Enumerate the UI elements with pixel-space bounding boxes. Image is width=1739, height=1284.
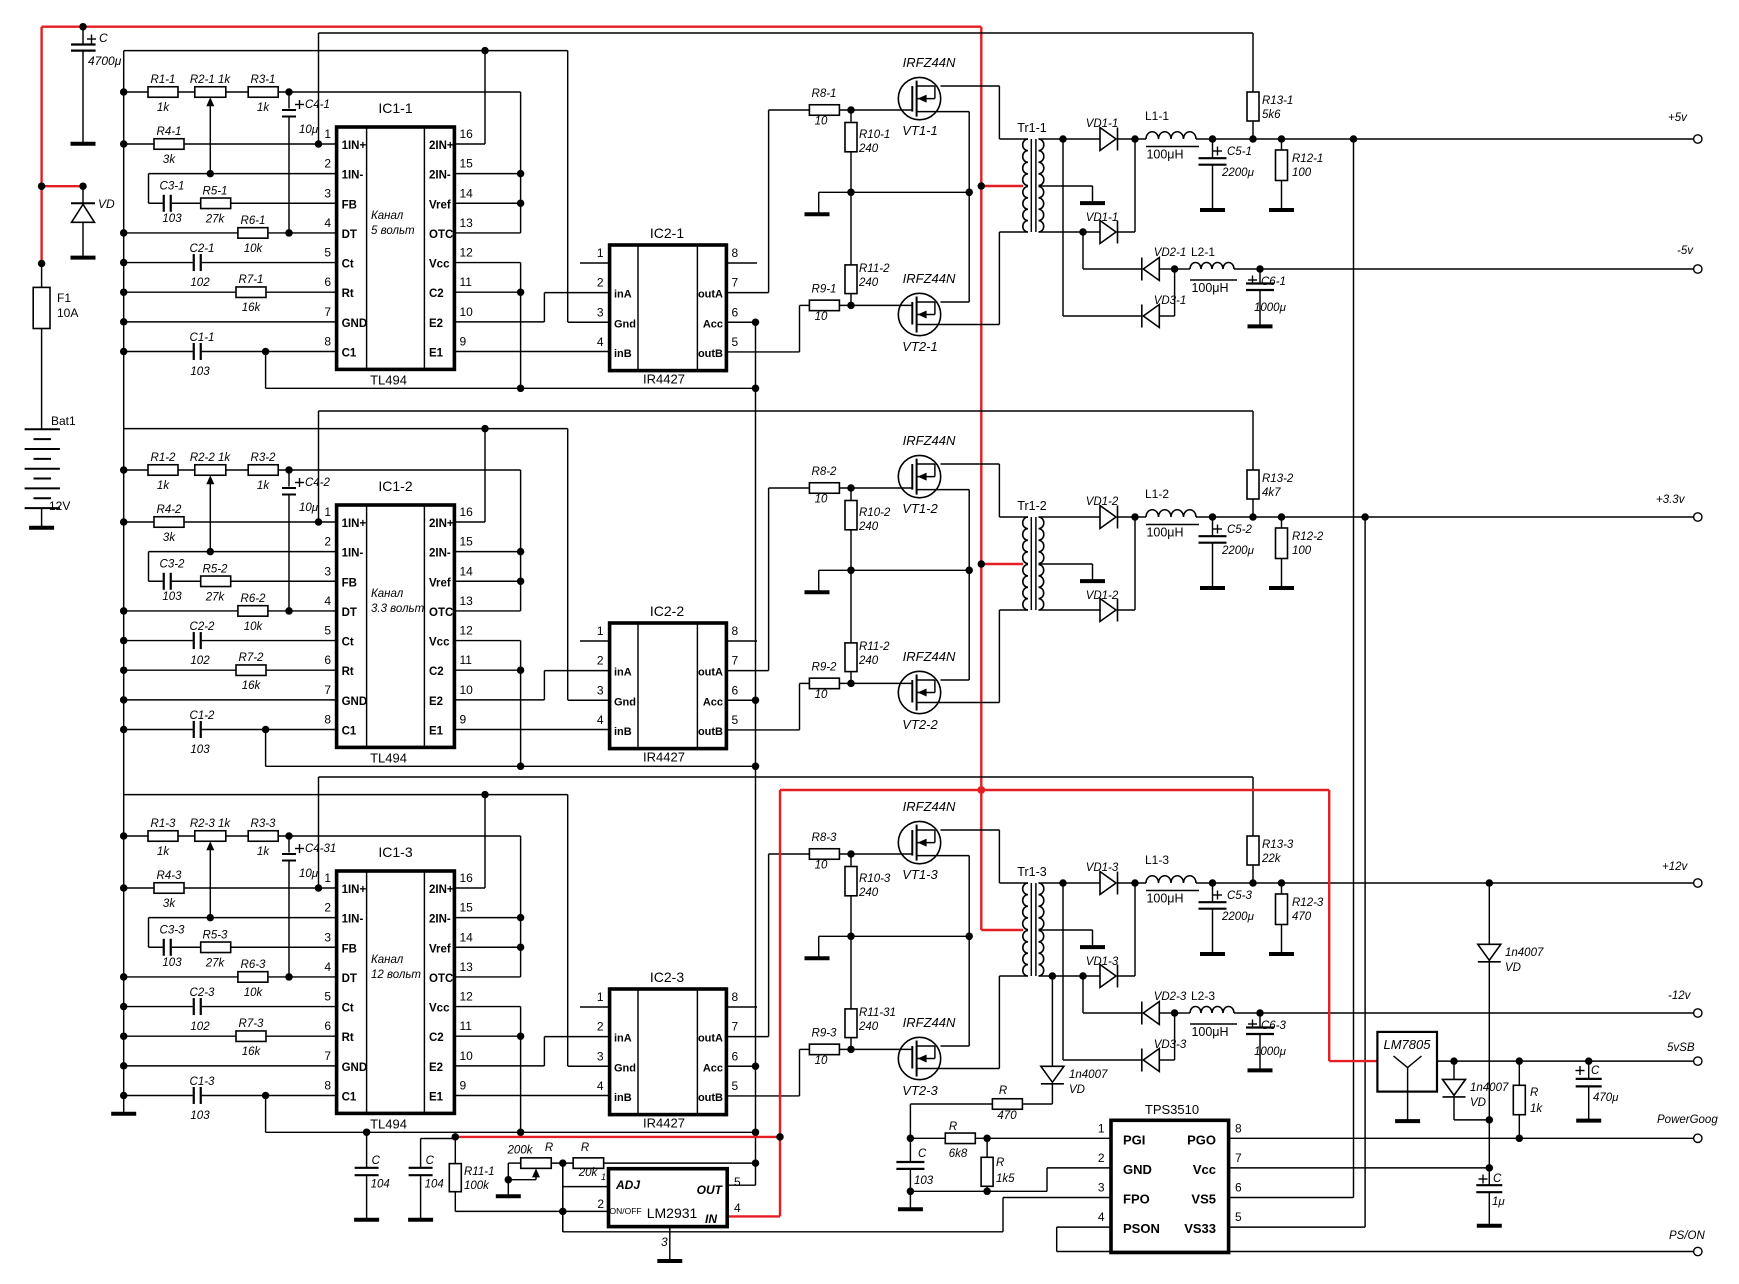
svg-text:IRFZ44N: IRFZ44N (903, 433, 956, 448)
svg-text:102: 102 (190, 1021, 210, 1033)
svg-text:3: 3 (324, 186, 331, 200)
svg-text:6: 6 (732, 1049, 739, 1063)
svg-text:12: 12 (460, 624, 474, 638)
svg-text:Vcc: Vcc (1193, 1162, 1216, 1177)
svg-text:VT2-1: VT2-1 (902, 339, 937, 354)
svg-text:6k8: 6k8 (949, 1148, 968, 1160)
svg-text:3: 3 (597, 683, 604, 697)
svg-text:DT: DT (342, 973, 357, 985)
svg-text:470: 470 (997, 1110, 1017, 1122)
svg-text:20k: 20k (578, 1167, 599, 1179)
svg-text:C: C (1591, 1065, 1600, 1077)
svg-text:R6-2: R6-2 (241, 593, 267, 605)
svg-text:6: 6 (732, 305, 739, 319)
svg-text:VT1-2: VT1-2 (902, 501, 938, 516)
svg-text:R3-3: R3-3 (251, 818, 277, 830)
svg-text:R8-2: R8-2 (812, 466, 838, 478)
svg-text:3: 3 (661, 1235, 668, 1249)
svg-text:5: 5 (732, 1079, 739, 1093)
svg-text:R: R (545, 1142, 553, 1154)
svg-text:IRFZ44N: IRFZ44N (903, 55, 956, 70)
svg-text:C2-3: C2-3 (190, 987, 216, 999)
svg-text:C3-1: C3-1 (160, 180, 185, 192)
svg-text:7: 7 (732, 276, 739, 290)
svg-text:1IN+: 1IN+ (342, 518, 367, 530)
svg-text:240: 240 (858, 887, 879, 899)
svg-text:IRFZ44N: IRFZ44N (903, 799, 956, 814)
svg-text:8: 8 (324, 1078, 331, 1092)
svg-text:100μH: 100μH (1146, 526, 1183, 540)
svg-text:100μH: 100μH (1146, 148, 1183, 162)
svg-text:R7-2: R7-2 (239, 652, 265, 664)
svg-text:22k: 22k (1261, 853, 1282, 865)
svg-text:16: 16 (460, 127, 474, 141)
svg-text:Канал: Канал (371, 210, 404, 222)
svg-text:VD: VD (1505, 962, 1521, 974)
svg-text:4: 4 (597, 1079, 604, 1093)
svg-text:240: 240 (858, 143, 879, 155)
svg-text:VT2-2: VT2-2 (902, 717, 938, 732)
svg-text:100k: 100k (464, 1180, 490, 1192)
svg-text:10: 10 (815, 689, 828, 701)
svg-text:2IN-: 2IN- (429, 170, 451, 182)
svg-text:R11-1: R11-1 (464, 1166, 494, 1178)
svg-text:4: 4 (324, 216, 331, 230)
svg-text:PS/ON: PS/ON (1669, 1230, 1705, 1242)
svg-text:R11-2: R11-2 (859, 641, 890, 653)
svg-text:R8-1: R8-1 (812, 88, 837, 100)
svg-text:VD1-3: VD1-3 (1086, 956, 1119, 968)
svg-text:Acc: Acc (703, 1062, 723, 1074)
svg-text:13: 13 (460, 594, 474, 608)
svg-text:VS33: VS33 (1184, 1221, 1216, 1236)
svg-text:PGO: PGO (1187, 1132, 1216, 1147)
svg-text:IC1-3: IC1-3 (378, 844, 412, 860)
svg-text:1: 1 (601, 1172, 606, 1182)
svg-text:8: 8 (732, 246, 739, 260)
svg-text:outA: outA (698, 1033, 723, 1045)
svg-text:L1-1: L1-1 (1145, 109, 1169, 123)
svg-text:inA: inA (614, 1033, 632, 1045)
svg-text:103: 103 (190, 1110, 210, 1122)
svg-text:IR4427: IR4427 (643, 372, 685, 387)
svg-text:103: 103 (162, 957, 182, 969)
svg-text:OTC: OTC (429, 973, 453, 985)
svg-text:Acc: Acc (703, 318, 723, 330)
svg-text:C2: C2 (429, 1032, 444, 1044)
svg-text:FPO: FPO (1123, 1192, 1150, 1207)
svg-text:5: 5 (324, 990, 331, 1004)
svg-text:-5v: -5v (1677, 245, 1694, 257)
svg-text:5: 5 (324, 624, 331, 638)
svg-text:1IN-: 1IN- (342, 170, 364, 182)
svg-text:10μ: 10μ (299, 124, 319, 136)
svg-text:VD1-2: VD1-2 (1086, 496, 1119, 508)
svg-text:6: 6 (324, 653, 331, 667)
svg-text:2IN-: 2IN- (429, 548, 451, 560)
svg-text:IC1-2: IC1-2 (378, 478, 412, 494)
svg-text:10: 10 (460, 683, 474, 697)
svg-text:2: 2 (597, 654, 604, 668)
svg-text:C5-1: C5-1 (1227, 146, 1252, 158)
svg-text:R10-1: R10-1 (859, 129, 890, 141)
svg-text:10: 10 (815, 860, 828, 872)
svg-text:5: 5 (324, 246, 331, 260)
svg-text:R6-1: R6-1 (241, 215, 266, 227)
svg-text:200k: 200k (507, 1145, 534, 1157)
svg-text:IC2-1: IC2-1 (650, 225, 684, 241)
svg-text:1k: 1k (257, 846, 270, 858)
svg-text:Канал: Канал (371, 954, 404, 966)
svg-text:Rt: Rt (342, 666, 354, 678)
svg-text:C3-2: C3-2 (160, 558, 186, 570)
svg-text:1: 1 (324, 871, 331, 885)
svg-text:L2-3: L2-3 (1191, 989, 1215, 1003)
svg-text:R13-3: R13-3 (1262, 839, 1294, 851)
svg-text:100μH: 100μH (1191, 1025, 1228, 1039)
svg-text:R2-2 1k: R2-2 1k (190, 452, 232, 464)
svg-text:16: 16 (460, 871, 474, 885)
svg-text:5: 5 (732, 335, 739, 349)
svg-text:8: 8 (324, 334, 331, 348)
svg-text:27k: 27k (205, 213, 226, 225)
svg-text:L1-2: L1-2 (1145, 487, 1169, 501)
svg-text:VD1-1: VD1-1 (1086, 118, 1119, 130)
svg-text:F1: F1 (57, 291, 71, 305)
svg-text:10k: 10k (244, 987, 264, 999)
svg-text:IRFZ44N: IRFZ44N (903, 1015, 956, 1030)
svg-text:FB: FB (342, 199, 357, 211)
svg-text:R: R (949, 1121, 957, 1133)
svg-text:3.3 вольт: 3.3 вольт (371, 603, 425, 615)
svg-text:C: C (1493, 1173, 1502, 1185)
svg-text:inB: inB (614, 348, 632, 360)
svg-text:C2: C2 (429, 288, 444, 300)
svg-text:Gnd: Gnd (614, 696, 636, 708)
svg-text:1: 1 (324, 127, 331, 141)
svg-text:ON/OFF: ON/OFF (610, 1206, 642, 1216)
svg-text:470: 470 (1292, 911, 1312, 923)
svg-text:14: 14 (460, 930, 474, 944)
svg-text:VD2-3: VD2-3 (1154, 991, 1187, 1003)
svg-text:C3-3: C3-3 (160, 924, 186, 936)
svg-text:7: 7 (324, 305, 331, 319)
svg-text:10: 10 (815, 311, 828, 323)
svg-text:12V: 12V (49, 499, 70, 513)
svg-text:12: 12 (460, 246, 474, 260)
svg-text:C: C (426, 1155, 435, 1167)
svg-text:VT1-3: VT1-3 (902, 867, 938, 882)
svg-text:9: 9 (460, 334, 467, 348)
svg-text:6: 6 (732, 683, 739, 697)
svg-text:16k: 16k (242, 302, 262, 314)
svg-text:R7-1: R7-1 (239, 274, 264, 286)
svg-text:Ct: Ct (342, 1003, 354, 1015)
svg-text:OTC: OTC (429, 607, 453, 619)
svg-text:1k: 1k (1530, 1103, 1543, 1115)
svg-text:R: R (996, 1157, 1004, 1169)
svg-text:Tr1-3: Tr1-3 (1017, 865, 1046, 879)
svg-text:Канал: Канал (371, 588, 404, 600)
svg-text:GND: GND (342, 696, 368, 708)
svg-text:103: 103 (162, 213, 182, 225)
svg-text:10: 10 (460, 1049, 474, 1063)
svg-text:1IN-: 1IN- (342, 548, 364, 560)
svg-text:6: 6 (324, 1019, 331, 1033)
svg-text:3k: 3k (163, 154, 176, 166)
svg-text:R2-3 1k: R2-3 1k (190, 818, 232, 830)
svg-text:R5-2: R5-2 (203, 563, 229, 575)
svg-text:VD1-3: VD1-3 (1086, 862, 1119, 874)
svg-text:100: 100 (1292, 167, 1312, 179)
svg-text:inB: inB (614, 1092, 632, 1104)
svg-text:PSON: PSON (1123, 1221, 1160, 1236)
svg-text:Rt: Rt (342, 288, 354, 300)
svg-text:+5v: +5v (1668, 112, 1688, 124)
svg-text:LM2931: LM2931 (647, 1205, 698, 1221)
svg-text:11: 11 (460, 1019, 473, 1033)
svg-text:R5-1: R5-1 (203, 185, 228, 197)
svg-text:Tr1-2: Tr1-2 (1017, 499, 1046, 513)
svg-text:R12-1: R12-1 (1292, 153, 1323, 165)
svg-text:R10-2: R10-2 (859, 507, 891, 519)
svg-text:C2: C2 (429, 666, 444, 678)
svg-text:10μ: 10μ (299, 868, 319, 880)
svg-text:1k5: 1k5 (996, 1173, 1015, 1185)
svg-text:8: 8 (732, 624, 739, 638)
svg-text:VD1-2: VD1-2 (1086, 590, 1119, 602)
svg-text:10μ: 10μ (299, 502, 319, 514)
svg-text:3: 3 (324, 564, 331, 578)
svg-text:9: 9 (460, 712, 467, 726)
svg-text:IC2-3: IC2-3 (650, 969, 684, 985)
svg-text:C4-31: C4-31 (305, 843, 336, 855)
svg-text:1k: 1k (257, 480, 270, 492)
svg-text:C5-3: C5-3 (1227, 890, 1253, 902)
svg-text:outB: outB (698, 348, 723, 360)
svg-text:4: 4 (734, 1201, 741, 1215)
svg-text:R4-1: R4-1 (157, 126, 182, 138)
svg-text:103: 103 (162, 591, 182, 603)
svg-text:VS5: VS5 (1191, 1192, 1216, 1207)
svg-text:2: 2 (1098, 1151, 1105, 1165)
svg-text:IRFZ44N: IRFZ44N (903, 649, 956, 664)
svg-text:VD2-1: VD2-1 (1154, 247, 1187, 259)
svg-text:103: 103 (190, 366, 210, 378)
svg-text:240: 240 (858, 277, 879, 289)
svg-text:VD3-3: VD3-3 (1154, 1039, 1187, 1051)
svg-text:R12-3: R12-3 (1292, 897, 1324, 909)
svg-text:Vref: Vref (429, 199, 451, 211)
svg-text:FB: FB (342, 943, 357, 955)
svg-text:5vSB: 5vSB (1667, 1042, 1695, 1054)
svg-text:10k: 10k (244, 621, 264, 633)
svg-text:R13-2: R13-2 (1262, 473, 1294, 485)
svg-text:5k6: 5k6 (1262, 109, 1281, 121)
svg-text:4: 4 (1098, 1210, 1105, 1224)
svg-text:2: 2 (597, 276, 604, 290)
svg-text:R2-1 1k: R2-1 1k (190, 74, 232, 86)
svg-text:E1: E1 (429, 1091, 444, 1103)
svg-text:104: 104 (371, 1179, 390, 1191)
svg-text:2IN-: 2IN- (429, 914, 451, 926)
svg-text:2200μ: 2200μ (1221, 167, 1255, 179)
svg-text:10: 10 (815, 1055, 828, 1067)
svg-text:TPS3510: TPS3510 (1145, 1102, 1199, 1117)
svg-text:R: R (1530, 1087, 1538, 1099)
svg-text:1k: 1k (157, 102, 170, 114)
svg-text:R11-31: R11-31 (859, 1007, 896, 1019)
svg-text:1000μ: 1000μ (1254, 1046, 1287, 1058)
svg-text:16k: 16k (242, 1046, 262, 1058)
svg-text:L2-1: L2-1 (1191, 245, 1215, 259)
svg-text:R3-1: R3-1 (251, 74, 276, 86)
svg-text:15: 15 (460, 157, 474, 171)
svg-text:100: 100 (1292, 545, 1312, 557)
svg-text:C4-2: C4-2 (305, 477, 331, 489)
svg-text:Vref: Vref (429, 943, 451, 955)
svg-text:7: 7 (324, 683, 331, 697)
svg-text:14: 14 (460, 564, 474, 578)
svg-text:Gnd: Gnd (614, 1062, 636, 1074)
svg-text:R10-3: R10-3 (859, 873, 891, 885)
svg-text:9: 9 (460, 1078, 467, 1092)
svg-text:15: 15 (460, 901, 474, 915)
svg-text:IN: IN (705, 1212, 717, 1226)
svg-text:R: R (581, 1142, 589, 1154)
svg-text:12 вольт: 12 вольт (371, 969, 421, 981)
svg-text:VT1-1: VT1-1 (902, 123, 937, 138)
svg-text:E1: E1 (429, 347, 444, 359)
svg-text:R1-2: R1-2 (151, 452, 177, 464)
svg-text:inA: inA (614, 667, 632, 679)
svg-text:240: 240 (858, 1021, 879, 1033)
svg-text:102: 102 (190, 655, 210, 667)
svg-text:LM7805: LM7805 (1384, 1037, 1432, 1052)
svg-text:R4-3: R4-3 (157, 870, 183, 882)
svg-text:3: 3 (1098, 1181, 1105, 1195)
svg-text:15: 15 (460, 535, 474, 549)
svg-text:1: 1 (324, 505, 331, 519)
svg-text:PowerGoog: PowerGoog (1657, 1114, 1718, 1126)
svg-text:27k: 27k (205, 591, 226, 603)
svg-text:2200μ: 2200μ (1221, 545, 1255, 557)
svg-text:E2: E2 (429, 1062, 443, 1074)
svg-text:OTC: OTC (429, 229, 453, 241)
svg-text:6: 6 (1235, 1181, 1242, 1195)
svg-text:VD: VD (98, 197, 115, 211)
svg-text:1k: 1k (157, 480, 170, 492)
svg-text:2: 2 (597, 1020, 604, 1034)
svg-text:IRFZ44N: IRFZ44N (903, 271, 956, 286)
svg-text:4: 4 (324, 960, 331, 974)
svg-text:R: R (999, 1085, 1007, 1097)
svg-text:7: 7 (732, 1020, 739, 1034)
svg-text:C2-2: C2-2 (190, 621, 216, 633)
svg-text:Gnd: Gnd (614, 318, 636, 330)
svg-text:C2-1: C2-1 (190, 243, 215, 255)
svg-text:1k: 1k (157, 846, 170, 858)
svg-text:R6-3: R6-3 (241, 959, 267, 971)
svg-text:1: 1 (597, 624, 604, 638)
svg-text:C: C (918, 1148, 927, 1160)
svg-text:1μ: 1μ (1492, 1196, 1505, 1208)
svg-text:VD: VD (1069, 1084, 1085, 1096)
svg-text:GND: GND (1123, 1162, 1152, 1177)
svg-text:470μ: 470μ (1593, 1092, 1619, 1104)
svg-text:IR4427: IR4427 (643, 750, 685, 765)
svg-text:outB: outB (698, 1092, 723, 1104)
svg-text:7: 7 (324, 1049, 331, 1063)
svg-text:inA: inA (614, 289, 632, 301)
svg-text:2: 2 (324, 901, 331, 915)
svg-text:12: 12 (460, 990, 474, 1004)
svg-text:16: 16 (460, 505, 474, 519)
svg-text:R3-2: R3-2 (251, 452, 277, 464)
svg-text:4: 4 (597, 713, 604, 727)
svg-text:1: 1 (1098, 1121, 1105, 1135)
svg-text:Vcc: Vcc (429, 637, 450, 649)
svg-text:10: 10 (815, 494, 828, 506)
svg-text:DT: DT (342, 229, 357, 241)
svg-text:C6-1: C6-1 (1261, 276, 1286, 288)
svg-text:C6-3: C6-3 (1261, 1020, 1287, 1032)
svg-text:5: 5 (732, 713, 739, 727)
svg-text:inB: inB (614, 726, 632, 738)
svg-text:14: 14 (460, 186, 474, 200)
svg-text:L1-3: L1-3 (1145, 853, 1169, 867)
svg-text:Vref: Vref (429, 577, 451, 589)
svg-text:-12v: -12v (1668, 990, 1692, 1002)
svg-text:E1: E1 (429, 725, 444, 737)
svg-text:Acc: Acc (703, 696, 723, 708)
svg-text:Ct: Ct (342, 637, 354, 649)
svg-text:R9-3: R9-3 (812, 1027, 838, 1039)
svg-text:100μH: 100μH (1146, 892, 1183, 906)
svg-text:2IN+: 2IN+ (429, 140, 454, 152)
svg-text:1: 1 (597, 246, 604, 260)
svg-text:C5-2: C5-2 (1227, 524, 1253, 536)
svg-text:1n4007: 1n4007 (1505, 947, 1544, 959)
svg-text:FB: FB (342, 577, 357, 589)
svg-text:4700μ: 4700μ (88, 54, 122, 68)
svg-text:outB: outB (698, 726, 723, 738)
svg-text:1IN-: 1IN- (342, 914, 364, 926)
svg-text:8: 8 (1235, 1121, 1242, 1135)
svg-text:3: 3 (324, 930, 331, 944)
svg-text:C: C (372, 1155, 381, 1167)
svg-text:3k: 3k (163, 898, 176, 910)
svg-text:OUT: OUT (697, 1183, 724, 1197)
svg-text:R8-3: R8-3 (812, 832, 838, 844)
svg-text:104: 104 (425, 1179, 444, 1191)
svg-text:+12v: +12v (1662, 861, 1689, 873)
svg-text:16k: 16k (242, 680, 262, 692)
svg-text:ADJ: ADJ (615, 1178, 640, 1192)
svg-text:Rt: Rt (342, 1032, 354, 1044)
svg-text:TL494: TL494 (370, 751, 407, 766)
svg-text:Tr1-1: Tr1-1 (1017, 121, 1046, 135)
svg-text:GND: GND (342, 318, 368, 330)
svg-text:4: 4 (324, 594, 331, 608)
svg-text:VT2-3: VT2-3 (902, 1083, 938, 1098)
svg-text:VD: VD (1470, 1097, 1486, 1109)
svg-text:240: 240 (858, 655, 879, 667)
svg-text:100μH: 100μH (1191, 281, 1228, 295)
svg-text:Vcc: Vcc (429, 1003, 450, 1015)
svg-text:2: 2 (597, 1197, 604, 1211)
svg-text:R1-1: R1-1 (151, 74, 176, 86)
